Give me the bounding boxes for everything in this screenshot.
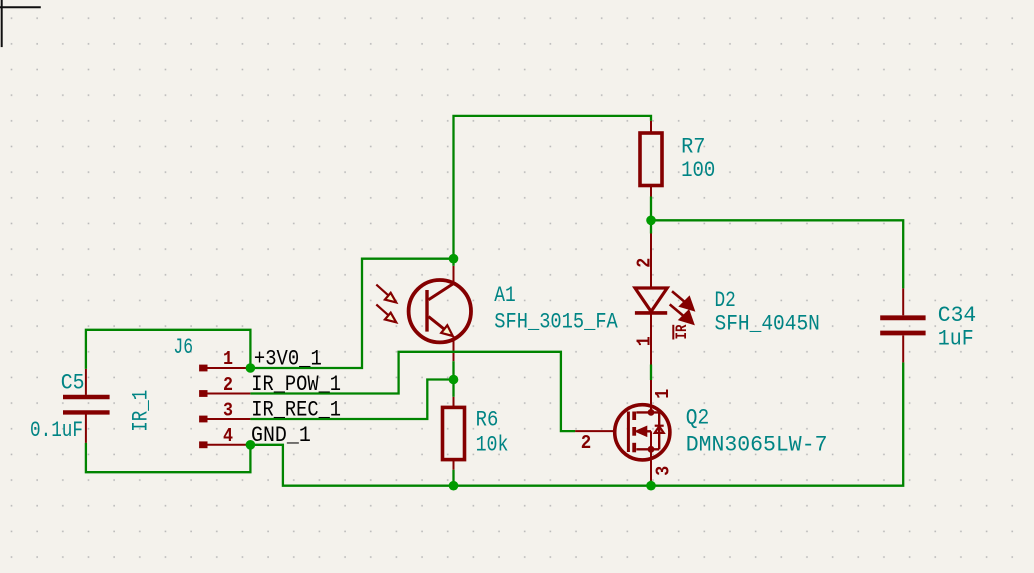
svg-text:GND_1: GND_1 bbox=[251, 423, 311, 448]
svg-text:C5: C5 bbox=[61, 370, 85, 395]
connector J6 pin 4 bbox=[199, 441, 250, 448]
svg-text:1: 1 bbox=[652, 389, 674, 399]
capacitor C5 bbox=[63, 369, 110, 443]
phototransistor A1 bbox=[376, 266, 471, 361]
svg-text:Q2: Q2 bbox=[686, 405, 710, 430]
svg-text:3: 3 bbox=[223, 399, 233, 421]
wire A1 emitter segment bbox=[452, 361, 454, 397]
svg-text:R6: R6 bbox=[476, 408, 499, 433]
emission arrows of D2 bbox=[672, 291, 686, 303]
svg-text:C34: C34 bbox=[938, 303, 976, 328]
junction R7 bottom bbox=[646, 216, 656, 226]
IR overline mark bbox=[672, 325, 674, 340]
wire +3V0_1 pin1 to junction A bbox=[250, 259, 453, 368]
junction A above A1 bbox=[449, 254, 459, 264]
svg-text:IR_POW_1: IR_POW_1 bbox=[251, 372, 341, 397]
svg-text:10k: 10k bbox=[476, 433, 509, 458]
svg-text:1: 1 bbox=[634, 336, 656, 346]
wire top rail to R7 bbox=[454, 116, 652, 259]
wire C5 bottom loop to pin4 bbox=[86, 443, 251, 472]
LED D2 bbox=[635, 234, 694, 365]
wire IR_REC_1 pin3 to emitter junction bbox=[250, 380, 453, 420]
svg-text:2: 2 bbox=[634, 258, 656, 268]
svg-text:2: 2 bbox=[223, 374, 233, 396]
wire junction B to C34 top bbox=[651, 220, 903, 288]
svg-text:A1: A1 bbox=[494, 283, 515, 308]
wire junction A to A1 collector bbox=[452, 259, 454, 266]
wire GND rail from pin4 to C34 bbox=[250, 362, 903, 485]
resistor R7 bbox=[640, 121, 662, 197]
wire pin1 up and left to C5 top bbox=[86, 330, 251, 369]
svg-text:1uF: 1uF bbox=[938, 327, 974, 352]
svg-text:IR: IR bbox=[673, 324, 691, 339]
resistor R6 bbox=[443, 397, 465, 470]
junction emitter/R6/IR_REC bbox=[449, 375, 459, 385]
wire IR_POW_1 pin2 to Q2 gate bbox=[250, 352, 575, 431]
svg-text:+3V0_1: +3V0_1 bbox=[254, 347, 322, 372]
junction pin4 bbox=[246, 440, 256, 450]
svg-text:4: 4 bbox=[223, 425, 233, 447]
svg-text:3: 3 bbox=[652, 466, 674, 476]
sheet border corner bbox=[0, 0, 41, 47]
svg-text:D2: D2 bbox=[715, 288, 736, 313]
svg-text:R7: R7 bbox=[681, 135, 705, 160]
mosfet Q2 bbox=[575, 380, 670, 481]
svg-text:SFH_3015_FA: SFH_3015_FA bbox=[494, 310, 618, 335]
wire Q2 source to rail bbox=[650, 481, 652, 486]
connector J6 pin 2 bbox=[199, 390, 250, 397]
svg-text:100: 100 bbox=[681, 158, 715, 183]
svg-text:IR_REC_1: IR_REC_1 bbox=[251, 397, 341, 422]
svg-text:IR_1: IR_1 bbox=[129, 390, 154, 432]
svg-text:2: 2 bbox=[581, 432, 592, 454]
svg-text:J6: J6 bbox=[173, 335, 193, 360]
junction dots bbox=[246, 216, 656, 491]
connector J6 pin 1 bbox=[199, 365, 250, 372]
light arrows into A1 bbox=[376, 285, 389, 297]
svg-text:DMN3065LW-7: DMN3065LW-7 bbox=[686, 433, 828, 458]
wire R6 bottom to rail bbox=[452, 470, 454, 486]
capacitor C34 bbox=[880, 288, 925, 362]
wire D2 to Q2 drain bbox=[650, 365, 652, 381]
svg-text:SFH_4045N: SFH_4045N bbox=[715, 311, 820, 336]
connector J6 pin 3 bbox=[199, 416, 250, 423]
junction R6 bottom rail bbox=[449, 481, 459, 491]
junction Q2 source rail bbox=[646, 481, 656, 491]
junction pin1 bbox=[246, 363, 256, 373]
wire R7 bottom to junction B bbox=[650, 197, 652, 234]
svg-text:0.1uF: 0.1uF bbox=[30, 418, 83, 443]
svg-text:1: 1 bbox=[223, 348, 233, 370]
